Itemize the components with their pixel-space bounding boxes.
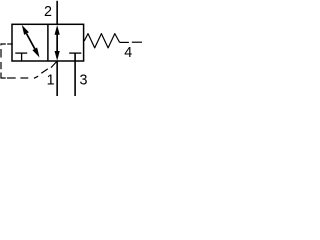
port 3 line xyxy=(74,53,76,96)
diagonal flow arrow (left box) xyxy=(22,25,40,58)
pilot dashed corner bottom left xyxy=(1,73,6,79)
port 2 line xyxy=(56,1,58,25)
blocked port T right box xyxy=(69,52,81,54)
vertical flow arrow (right box) xyxy=(55,25,60,61)
pilot dash + corner at top left xyxy=(1,44,6,45)
svg-text:3: 3 xyxy=(80,73,88,89)
svg-text:1: 1 xyxy=(47,72,55,88)
spring xyxy=(84,34,119,48)
pilot dashed diagonal to port 1 xyxy=(34,76,38,78)
valve body outline xyxy=(12,24,84,61)
port 1 line xyxy=(56,61,58,96)
blocked port T left box xyxy=(15,53,27,61)
pilot dashed horizontal bottom xyxy=(7,77,16,79)
svg-text:2: 2 xyxy=(44,4,52,20)
pilot dashed vertical left xyxy=(0,49,2,58)
pilot port tick on left edge xyxy=(7,43,13,45)
pilot dashed line 4 (right) xyxy=(120,41,129,43)
svg-text:4: 4 xyxy=(124,45,132,61)
valve position divider xyxy=(47,24,49,61)
